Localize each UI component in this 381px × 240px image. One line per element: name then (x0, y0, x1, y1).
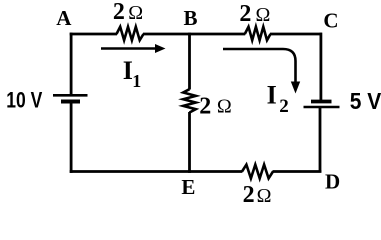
svg-text:2: 2 (243, 182, 255, 208)
node E junction (188, 170, 242, 173)
svg-text:D: D (325, 169, 340, 193)
svg-text:E: E (181, 175, 195, 199)
wire top A-B right segment (143, 33, 191, 36)
resistor R1 2ohm between A and B (117, 27, 144, 40)
svg-text:Ω: Ω (257, 185, 272, 207)
current arrow I2 (curved) (223, 49, 300, 94)
resistor R2 2ohm between B and C (245, 27, 271, 40)
wire top B-C left segment (188, 33, 245, 36)
svg-text:Ω: Ω (217, 96, 232, 118)
svg-text:Ω: Ω (255, 4, 270, 26)
battery B1 10V short negative plate (61, 100, 80, 104)
wire bottom left segment (corner to E) (70, 170, 191, 173)
svg-text:2: 2 (113, 0, 125, 25)
battery B2 5V short negative plate (311, 100, 332, 104)
wire middle lower (resistor down to E) (188, 112, 191, 173)
svg-text:I: I (267, 81, 277, 110)
wire right upper (C down to battery) (319, 33, 322, 102)
resistor R3 2ohm between B and E (183, 89, 196, 112)
wire left lower (battery down to bottom-left corner) (70, 102, 73, 173)
wire top A-B left segment (70, 33, 117, 36)
svg-text:10 V: 10 V (6, 87, 42, 112)
svg-text:2: 2 (239, 1, 251, 27)
resistor R4 2ohm between E and D (242, 165, 273, 179)
svg-text:Ω: Ω (128, 2, 143, 24)
wire left upper (A down to battery) (70, 33, 73, 96)
battery B1 10V long positive plate (53, 94, 88, 97)
wire bottom right segment (resistor to D) (273, 170, 322, 173)
svg-text:C: C (323, 9, 338, 33)
svg-text:5 V: 5 V (350, 88, 381, 114)
wire right lower (battery down to D) (319, 107, 322, 173)
svg-text:2: 2 (279, 96, 289, 117)
wire top B-C right segment (270, 33, 322, 36)
svg-text:A: A (56, 6, 72, 30)
svg-text:1: 1 (132, 71, 141, 91)
battery B2 5V long positive plate (304, 106, 340, 109)
current arrow I1 (101, 44, 166, 53)
wire middle upper (B down to resistor) (188, 34, 191, 90)
svg-text:B: B (183, 6, 197, 30)
svg-text:2: 2 (199, 93, 211, 119)
